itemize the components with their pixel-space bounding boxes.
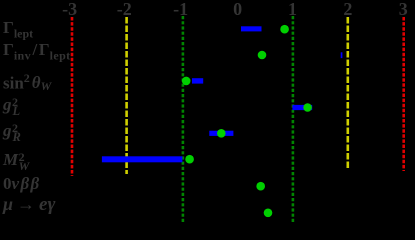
row label gL^2 [3,96,21,113]
dot row3 (green) [182,77,191,86]
bar row2 Gamma_inv/Gamma_lept small tick (blue) [341,52,343,58]
row label mu->egamma [3,195,55,214]
row label gR^2 [3,122,21,139]
gridline +2 sigma (yellow dashed) [346,17,349,169]
gridline +1 sigma (green dashed) [292,16,295,224]
gridline -1 sigma (green dashed) [182,16,185,224]
axis tick label -1 [173,0,188,18]
gridline -2 sigma (yellow dashed) [125,17,128,174]
axis tick label 0 [233,0,242,18]
axis tick label 1 [288,0,297,18]
dot row1 (green) [280,25,289,34]
axis tick label -3 [62,0,77,18]
row label Gamma_lept [3,19,33,39]
row label MW^2 [3,151,28,168]
dot row4 (green) [303,103,312,112]
bar row3 sin2thetaW (blue) [192,78,203,83]
gridline -3 sigma (red dashed) [71,17,74,176]
dot row8 (green) [264,209,273,218]
gridline +3 sigma (red dashed) [402,17,405,171]
dot row7 (green) [256,182,265,191]
row label 0nubb [3,175,41,192]
row label sin^2 theta_W [3,72,51,92]
dot row5 (green) [217,129,226,138]
axis tick label 2 [343,0,352,18]
row label Gamma_inv/Gamma_lept [3,41,71,61]
bar row5 gR2 (blue) [209,131,233,136]
bar row6 MW2 (blue) [102,156,182,162]
dot row6 (green) [185,155,194,164]
dot row2 (green) [258,51,267,60]
bar row1 Gamma_lept (blue) [241,26,262,31]
axis tick label 3 [399,0,408,18]
bar row4 gL2 (blue) [292,105,312,110]
axis tick label -2 [117,0,132,18]
